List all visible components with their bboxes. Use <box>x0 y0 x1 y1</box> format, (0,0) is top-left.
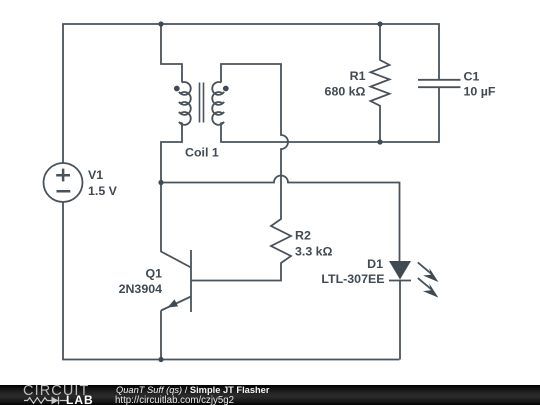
svg-text:R1: R1 <box>350 69 366 83</box>
svg-text:C1: C1 <box>464 70 480 84</box>
svg-text:R2: R2 <box>295 229 311 243</box>
svg-text:LTL-307EE: LTL-307EE <box>321 272 384 286</box>
svg-text:V1: V1 <box>88 168 103 182</box>
svg-text:D1: D1 <box>367 257 383 271</box>
svg-text:Q1: Q1 <box>145 266 162 280</box>
svg-text:680 kΩ: 680 kΩ <box>325 84 366 98</box>
svg-text:Coil 1: Coil 1 <box>185 145 219 159</box>
svg-text:3.3 kΩ: 3.3 kΩ <box>295 244 333 258</box>
svg-text:1.5 V: 1.5 V <box>88 184 118 198</box>
svg-text:2N3904: 2N3904 <box>119 282 163 296</box>
svg-text:10 µF: 10 µF <box>464 84 496 98</box>
